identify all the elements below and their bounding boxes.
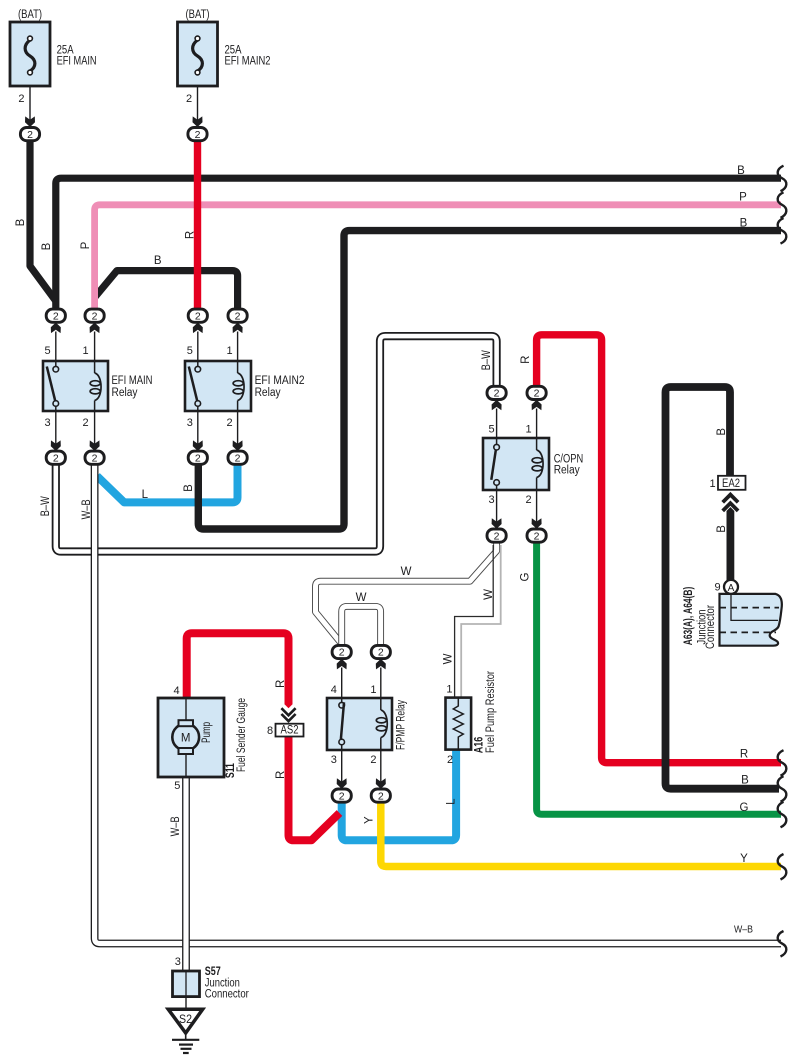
- svg-text:2: 2: [27, 129, 33, 141]
- svg-text:2: 2: [18, 93, 24, 105]
- wire fuse1 drop to relay pin 5: [30, 140, 56, 301]
- wire R fuse2 drop: [194, 140, 201, 309]
- svg-text:2: 2: [339, 790, 345, 802]
- svg-text:1: 1: [227, 345, 233, 357]
- wire W (C/OPN pin3 to A16 pin1) dark stroke: [455, 545, 494, 698]
- relay C/OPN box: [483, 438, 549, 490]
- svg-text:S57: S57: [205, 966, 221, 978]
- svg-text:B: B: [716, 525, 728, 533]
- svg-text:2: 2: [339, 647, 345, 659]
- svg-text:Connector: Connector: [205, 989, 249, 1001]
- svg-text:2: 2: [195, 452, 201, 464]
- junction connector A63(A) A64(B): [720, 594, 782, 646]
- svg-text:B: B: [15, 218, 27, 226]
- svg-text:W–B: W–B: [170, 816, 182, 836]
- relay EFI MAIN2 box: [185, 361, 251, 411]
- svg-text:8: 8: [267, 725, 273, 737]
- svg-text:W: W: [401, 566, 412, 578]
- svg-text:3: 3: [175, 956, 181, 968]
- svg-text:2: 2: [235, 452, 241, 464]
- svg-text:R: R: [275, 680, 287, 688]
- connector circles 2: EFI MAIN / EFI MAIN2 relay pins 3 and 2: [46, 411, 247, 464]
- svg-text:4: 4: [174, 685, 180, 697]
- svg-text:(BAT): (BAT): [186, 9, 210, 21]
- svg-text:2: 2: [227, 417, 233, 429]
- svg-text:2: 2: [235, 310, 241, 322]
- svg-text:Relay: Relay: [112, 387, 138, 399]
- resistor A16 box: [446, 698, 472, 750]
- svg-text:B: B: [737, 165, 745, 177]
- connector circle A (junction 9): [724, 580, 738, 594]
- svg-text:5: 5: [174, 780, 180, 792]
- fuse 25A EFI MAIN: [10, 22, 50, 121]
- rotated labels: [15, 218, 728, 836]
- wire P pink bus: [95, 205, 781, 309]
- wire W-B (EFI MAIN pin2 to right edge bus): [95, 464, 781, 944]
- svg-text:1: 1: [525, 424, 531, 436]
- svg-text:2: 2: [525, 494, 531, 506]
- svg-text:A16: A16: [474, 737, 486, 754]
- svg-text:A63(A), A64(B): A63(A), A64(B): [683, 587, 695, 646]
- fuse 25A EFI MAIN2: [178, 22, 218, 121]
- svg-text:P: P: [80, 241, 92, 249]
- svg-text:EFI MAIN: EFI MAIN: [112, 375, 153, 387]
- wire L blue (tap from W-B to EFI MAIN2 pin 2): [97, 464, 238, 503]
- connector circles under fuses: [20, 116, 207, 140]
- svg-text:B: B: [41, 242, 53, 250]
- svg-text:B: B: [183, 484, 195, 492]
- svg-text:2: 2: [447, 754, 453, 766]
- connector circles 2: EFI MAIN / EFI MAIN2 relay pins 5 and 1: [46, 309, 247, 361]
- wire W loop (F/PMP pin4 to pin1): [342, 606, 381, 647]
- relay EFI MAIN box: [43, 361, 108, 411]
- svg-text:M: M: [181, 733, 191, 745]
- wire B (EFI MAIN2 pin3 to right edge B bus): [198, 231, 781, 529]
- svg-text:3: 3: [489, 494, 495, 506]
- svg-text:R: R: [740, 749, 748, 761]
- wire B right (EA2 branch to right edge): [666, 387, 780, 789]
- connector circles 2: F/PMP relay pins 4 and 1: [332, 645, 390, 698]
- svg-text:Fuel Sender Gauge: Fuel Sender Gauge: [236, 698, 248, 772]
- svg-text:R: R: [520, 356, 532, 364]
- wire B branch to EFI MAIN2 pin 1: [95, 271, 238, 310]
- wire W-B (pump pin5 to S57): [182, 777, 190, 971]
- svg-text:Pump: Pump: [201, 722, 213, 743]
- svg-text:2: 2: [534, 388, 540, 400]
- wire B (EA2 chevron to junction connector A), pointed top: [727, 507, 735, 580]
- svg-text:4: 4: [331, 684, 337, 696]
- svg-text:A: A: [728, 583, 735, 594]
- svg-text:9: 9: [714, 581, 720, 593]
- svg-text:B: B: [741, 775, 749, 787]
- svg-text:W: W: [443, 653, 455, 664]
- svg-text:5: 5: [187, 345, 193, 357]
- svg-text:Y: Y: [740, 853, 748, 865]
- svg-text:2: 2: [378, 790, 384, 802]
- svg-text:B: B: [716, 428, 728, 436]
- svg-text:2: 2: [494, 530, 500, 542]
- svg-text:2: 2: [534, 530, 540, 542]
- svg-text:2: 2: [494, 388, 500, 400]
- svg-text:3: 3: [187, 417, 193, 429]
- relay F/PMP box: [327, 698, 392, 750]
- svg-text:EFI MAIN2: EFI MAIN2: [255, 375, 305, 387]
- wire B-W (EFI MAIN pin3 to C/OPN pin5): [56, 336, 497, 551]
- wire R pump feed (pump pin4 to AS2), pointed bottom tip: [187, 633, 289, 703]
- relay pin numbers: [44, 345, 720, 968]
- svg-text:G: G: [740, 802, 749, 814]
- svg-text:1: 1: [82, 345, 88, 357]
- svg-text:R: R: [184, 231, 196, 239]
- svg-text:Fuel Pump Resistor: Fuel Pump Resistor: [485, 671, 497, 753]
- svg-text:G: G: [520, 572, 532, 581]
- svg-text:EFI MAIN2: EFI MAIN2: [225, 56, 271, 68]
- ground S2: [168, 1009, 203, 1053]
- svg-text:F/PMP Relay: F/PMP Relay: [396, 700, 408, 750]
- wire R C/OPN coil feed from right edge: [537, 335, 781, 763]
- svg-text:W–B: W–B: [81, 499, 93, 519]
- connector circles 2: C/OPN relay pins 5 and 1: [487, 386, 546, 438]
- svg-text:B–W: B–W: [40, 496, 52, 516]
- wire Y yellow (F/PMP pin2 to right edge): [381, 802, 781, 867]
- svg-text:AS2: AS2: [281, 725, 299, 737]
- svg-text:3: 3: [44, 417, 50, 429]
- svg-text:2: 2: [186, 93, 192, 105]
- svg-text:B–W: B–W: [481, 350, 493, 370]
- svg-text:W: W: [356, 592, 367, 604]
- connector AS2: [276, 708, 304, 736]
- svg-text:S2: S2: [179, 1014, 192, 1026]
- wire R (AS2 to F/PMP relay pin 3 junction with L blue): [289, 737, 340, 841]
- svg-text:Connector: Connector: [705, 605, 717, 649]
- svg-text:L: L: [142, 489, 149, 501]
- svg-text:EA2: EA2: [722, 478, 740, 490]
- svg-text:1: 1: [446, 683, 452, 695]
- svg-text:2: 2: [92, 310, 98, 322]
- svg-text:B: B: [154, 255, 162, 267]
- circle pin numbers "2": [27, 129, 540, 803]
- svg-text:W: W: [483, 589, 495, 600]
- svg-text:2: 2: [378, 647, 384, 659]
- svg-text:2: 2: [53, 452, 59, 464]
- chevrons below EA2: [723, 495, 738, 511]
- connector circles 2: C/OPN relay pins 3 and 2: [487, 490, 546, 542]
- wire L blue (F/PMP pin3 to A16 pin2): [342, 749, 456, 840]
- wire W (C/OPN pin3 to F/PMP pin4): [316, 543, 497, 647]
- fuel pump S11 box: [158, 698, 224, 777]
- svg-text:EFI MAIN: EFI MAIN: [57, 56, 97, 68]
- svg-text:2: 2: [370, 754, 376, 766]
- wire G green (C/OPN pin2 to right edge): [537, 542, 781, 814]
- svg-text:(BAT): (BAT): [18, 9, 42, 21]
- junction connector S57: [173, 971, 200, 1009]
- wire W (C/OPN pin3 to A16 pin1) gray stroke: [461, 545, 501, 698]
- svg-text:Relay: Relay: [554, 465, 580, 477]
- svg-text:R: R: [275, 771, 287, 779]
- svg-text:2: 2: [92, 452, 98, 464]
- svg-text:1: 1: [709, 478, 715, 490]
- svg-text:1: 1: [370, 684, 376, 696]
- svg-text:5: 5: [44, 345, 50, 357]
- svg-text:Y: Y: [364, 816, 376, 824]
- svg-text:2: 2: [195, 310, 201, 322]
- svg-text:2: 2: [82, 417, 88, 429]
- svg-text:2: 2: [195, 129, 201, 141]
- svg-text:B: B: [740, 218, 748, 230]
- wire B bus top (fuse EFI MAIN to right edge): [56, 178, 781, 309]
- fuse bottom arrows and circles: [25, 116, 35, 127]
- svg-text:Relay: Relay: [255, 387, 281, 399]
- connector EA2: [718, 476, 746, 490]
- svg-text:5: 5: [489, 424, 495, 436]
- svg-text:3: 3: [331, 754, 337, 766]
- svg-text:W–B: W–B: [734, 925, 753, 936]
- svg-text:P: P: [739, 192, 747, 204]
- svg-text:L: L: [446, 798, 458, 805]
- connector circles 2: F/PMP relay pins 3 and 2: [332, 750, 390, 802]
- svg-text:2: 2: [53, 310, 59, 322]
